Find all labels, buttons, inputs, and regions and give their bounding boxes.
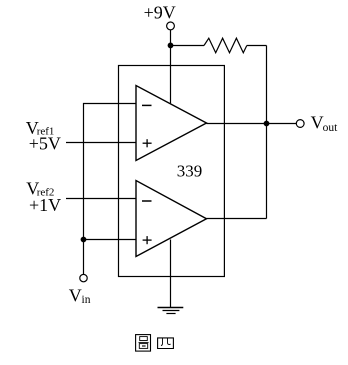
svg-text:in: in bbox=[82, 294, 91, 306]
svg-text:out: out bbox=[323, 122, 339, 134]
junction Vin branch node bbox=[81, 237, 87, 243]
U1A non-inverting input marker bbox=[143, 139, 152, 147]
wire Vref1 to U1A non-inverting input bbox=[66, 142, 136, 144]
IC box 339 bbox=[119, 66, 225, 277]
junction +9V / resistor node bbox=[168, 43, 174, 49]
wire Vin branch to U1B non-inverting input bbox=[84, 239, 137, 241]
svg-text:+5V: +5V bbox=[29, 134, 61, 154]
wire resistor to right vertical bbox=[247, 45, 267, 47]
wire Vin riser and branch to U1A inverting input bbox=[84, 104, 137, 275]
U1B inverting input marker bbox=[142, 200, 152, 202]
U1B non-inverting input marker bbox=[143, 236, 152, 244]
caption figure four (CJK drawn as strokes) bbox=[136, 335, 174, 352]
wire right vertical (resistor to output bus) bbox=[266, 46, 268, 219]
wire Vref2 to U1B inverting input bbox=[66, 198, 136, 200]
ground bbox=[158, 308, 184, 314]
op-amp U1A top comparator bbox=[136, 86, 207, 161]
terminal Vin bbox=[80, 274, 87, 281]
svg-text:339: 339 bbox=[177, 161, 203, 180]
svg-text:+9V: +9V bbox=[144, 3, 176, 23]
U1A inverting input marker bbox=[142, 104, 152, 106]
svg-text:V: V bbox=[69, 285, 82, 305]
wire junction to resistor bbox=[171, 45, 205, 47]
wire U1A output to Vout terminal bbox=[207, 123, 297, 125]
junction node Vout bbox=[264, 121, 270, 127]
svg-text:+1V: +1V bbox=[29, 195, 61, 215]
wire U1B output to output bus bbox=[207, 218, 267, 220]
wire +9V vertical to U1A power bbox=[170, 30, 172, 104]
terminal Vout bbox=[296, 120, 304, 128]
wire U1B power to ground bbox=[170, 240, 172, 308]
terminal +9V bbox=[167, 22, 175, 30]
resistor R1 pull-up bbox=[204, 38, 247, 53]
op-amp U1B bottom comparator bbox=[136, 181, 207, 257]
